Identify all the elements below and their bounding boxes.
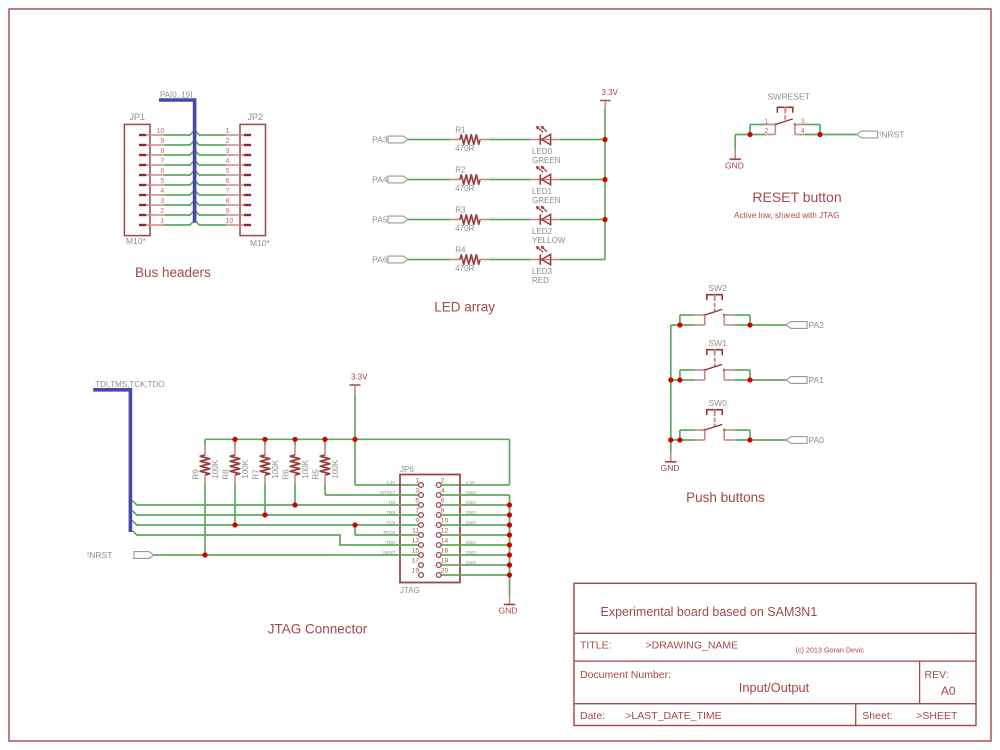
- svg-text:Bus headers: Bus headers: [135, 265, 211, 280]
- svg-text:(c) 2013 Goran Devic: (c) 2013 Goran Devic: [796, 646, 865, 655]
- svg-text:GND: GND: [725, 160, 744, 170]
- svg-text:3: 3: [226, 148, 230, 155]
- svg-text:470R: 470R: [455, 144, 474, 153]
- svg-text:470R: 470R: [455, 184, 474, 193]
- svg-text:R5: R5: [312, 469, 321, 480]
- svg-text:PA0: PA0: [809, 435, 825, 445]
- svg-text:8: 8: [226, 198, 230, 205]
- svg-text:5: 5: [160, 178, 164, 185]
- svg-text:TDO: TDO: [386, 540, 396, 545]
- svg-text:3.3V: 3.3V: [386, 480, 395, 485]
- svg-text:Push buttons: Push buttons: [686, 490, 765, 505]
- svg-text:Active low, shared with JTAG: Active low, shared with JTAG: [734, 211, 839, 220]
- svg-text:3.3V: 3.3V: [602, 88, 619, 97]
- svg-text:GREEN: GREEN: [532, 196, 561, 205]
- svg-text:GREEN: GREEN: [532, 156, 561, 165]
- svg-text:R9: R9: [192, 469, 201, 480]
- svg-text:R6: R6: [282, 469, 291, 480]
- svg-text:12: 12: [441, 528, 449, 535]
- svg-text:9: 9: [160, 138, 164, 145]
- svg-text:TDI: TDI: [388, 500, 395, 505]
- svg-text:4: 4: [160, 188, 164, 195]
- svg-text:7: 7: [226, 188, 230, 195]
- svg-text:SW0: SW0: [709, 398, 728, 408]
- svg-text:10: 10: [157, 128, 165, 135]
- svg-text:3.3V: 3.3V: [351, 373, 368, 382]
- svg-text:100K: 100K: [241, 459, 250, 478]
- svg-text:10: 10: [441, 518, 449, 525]
- svg-text:13: 13: [412, 538, 420, 545]
- svg-text:3.3V: 3.3V: [466, 480, 475, 485]
- svg-text:Document Number:: Document Number:: [580, 669, 671, 681]
- svg-text:TMS: TMS: [386, 510, 396, 515]
- svg-text:9: 9: [415, 518, 419, 525]
- svg-text:6: 6: [160, 168, 164, 175]
- svg-text:14: 14: [441, 538, 449, 545]
- svg-text:PA[0..19]: PA[0..19]: [160, 91, 192, 100]
- svg-text:Sheet:: Sheet:: [862, 710, 892, 722]
- svg-text:17: 17: [412, 558, 420, 565]
- svg-text:7: 7: [415, 508, 419, 515]
- svg-text:!NRST: !NRST: [879, 130, 905, 140]
- svg-text:10: 10: [226, 218, 234, 225]
- svg-text:4: 4: [441, 488, 445, 495]
- svg-text:3: 3: [160, 198, 164, 205]
- svg-text:SWRESET: SWRESET: [768, 92, 811, 102]
- svg-text:20: 20: [441, 568, 449, 575]
- svg-text:Date:: Date:: [580, 710, 605, 722]
- svg-text:5: 5: [415, 498, 419, 505]
- svg-text:JP1: JP1: [130, 112, 146, 122]
- svg-text:RTCK: RTCK: [383, 530, 395, 535]
- svg-text:SW1: SW1: [709, 338, 728, 348]
- svg-text:NTRST: NTRST: [381, 490, 396, 495]
- svg-text:RED: RED: [532, 276, 549, 285]
- svg-text:TITLE:: TITLE:: [580, 639, 612, 651]
- svg-text:7: 7: [160, 158, 164, 165]
- svg-text:GND: GND: [466, 510, 477, 515]
- svg-text:JTAG: JTAG: [400, 586, 420, 595]
- svg-text:GND: GND: [466, 540, 477, 545]
- svg-text:8: 8: [441, 508, 445, 515]
- svg-text:1: 1: [160, 218, 164, 225]
- svg-text:PA3: PA3: [372, 135, 388, 145]
- svg-text:R7: R7: [252, 469, 261, 480]
- svg-text:LED1: LED1: [532, 187, 553, 196]
- svg-text:RESET button: RESET button: [752, 189, 841, 205]
- svg-text:GND: GND: [466, 550, 477, 555]
- svg-text:R1: R1: [455, 126, 466, 135]
- svg-text:PA6: PA6: [372, 255, 388, 265]
- svg-text:LED0: LED0: [532, 147, 553, 156]
- svg-text:9: 9: [226, 208, 230, 215]
- svg-text:JP6: JP6: [400, 465, 414, 474]
- svg-text:100K: 100K: [271, 459, 280, 478]
- svg-text:2: 2: [160, 208, 164, 215]
- svg-text:Input/Output: Input/Output: [739, 680, 810, 695]
- svg-text:YELLOW: YELLOW: [532, 236, 566, 245]
- svg-text:2: 2: [441, 478, 445, 485]
- svg-text:R8: R8: [222, 469, 231, 480]
- svg-text:GND: GND: [466, 500, 477, 505]
- svg-text:PA5: PA5: [372, 215, 388, 225]
- svg-text:REV:: REV:: [925, 669, 949, 681]
- svg-text:470R: 470R: [455, 264, 474, 273]
- svg-text:R3: R3: [455, 206, 466, 215]
- svg-text:JTAG Connector: JTAG Connector: [268, 622, 368, 637]
- svg-text:LED array: LED array: [434, 300, 495, 315]
- svg-text:Experimental board based on SA: Experimental board based on SAM3N1: [601, 605, 818, 619]
- svg-text:PA1: PA1: [809, 375, 825, 385]
- svg-text:GND: GND: [499, 606, 518, 616]
- svg-text:15: 15: [412, 548, 420, 555]
- svg-text:A0: A0: [941, 684, 956, 698]
- svg-text:LED3: LED3: [532, 267, 553, 276]
- svg-text:3: 3: [801, 118, 805, 125]
- svg-text:4: 4: [226, 158, 230, 165]
- svg-text:100K: 100K: [211, 459, 220, 478]
- svg-text:>DRAWING_NAME: >DRAWING_NAME: [646, 639, 739, 651]
- svg-text:8: 8: [160, 148, 164, 155]
- svg-text:6: 6: [226, 178, 230, 185]
- svg-text:18: 18: [441, 558, 449, 565]
- svg-text:NRST: NRST: [383, 550, 396, 555]
- svg-text:1: 1: [226, 128, 230, 135]
- svg-text:470R: 470R: [455, 224, 474, 233]
- svg-text:LED2: LED2: [532, 227, 553, 236]
- svg-text:11: 11: [412, 528, 419, 535]
- svg-text:SW2: SW2: [709, 283, 728, 293]
- svg-text:>LAST_DATE_TIME: >LAST_DATE_TIME: [625, 710, 721, 722]
- svg-text:M10*: M10*: [250, 238, 271, 248]
- svg-text:TDI,TMS,TCK,TDO: TDI,TMS,TCK,TDO: [95, 380, 164, 389]
- svg-text:2: 2: [226, 138, 230, 145]
- svg-text:GND: GND: [661, 463, 680, 473]
- svg-text:!NRST: !NRST: [87, 550, 113, 560]
- svg-text:GND: GND: [466, 490, 477, 495]
- svg-text:R2: R2: [455, 166, 466, 175]
- svg-text:5: 5: [226, 168, 230, 175]
- svg-text:TCK: TCK: [387, 520, 396, 525]
- svg-text:6: 6: [441, 498, 445, 505]
- svg-text:19: 19: [412, 568, 420, 575]
- svg-text:16: 16: [441, 548, 449, 555]
- svg-text:R4: R4: [455, 246, 466, 255]
- svg-text:GND: GND: [466, 520, 477, 525]
- svg-text:GND: GND: [466, 560, 477, 565]
- svg-text:PA2: PA2: [809, 320, 825, 330]
- svg-text:M10*: M10*: [126, 236, 147, 246]
- svg-text:4: 4: [801, 128, 805, 135]
- svg-text:100K: 100K: [331, 459, 340, 478]
- svg-text:100K: 100K: [301, 459, 310, 478]
- svg-text:JP2: JP2: [248, 112, 264, 122]
- svg-text:3: 3: [415, 488, 419, 495]
- svg-text:PA4: PA4: [372, 175, 388, 185]
- svg-text:1: 1: [415, 478, 419, 485]
- svg-text:>SHEET: >SHEET: [916, 710, 958, 722]
